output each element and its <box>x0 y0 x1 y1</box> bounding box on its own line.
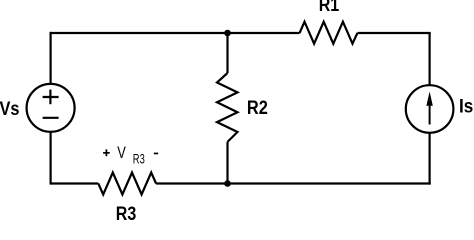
wire bottom-right segment (node B to bottom-right corner) <box>228 182 431 184</box>
current source Is (circle with upward arrow) <box>406 85 454 133</box>
wire right vertical lower (Is bottom to bottom-right corner) <box>429 133 431 185</box>
wire top-right segment (R1 right lead to top-right corner) <box>357 32 430 34</box>
wire right vertical (corner to Is top) <box>429 33 431 85</box>
wire top-left segment (Vs top to node A) <box>50 32 228 34</box>
wire R2 bottom to node B <box>226 142 228 184</box>
wire left vertical upper (top-left corner to Vs top) <box>49 32 51 84</box>
resistor R1 <box>300 22 358 44</box>
svg-text:R3: R3 <box>116 204 137 220</box>
voltage source Vs (circle with plus and minus) <box>27 84 75 132</box>
node A (junction of top wire and R2) <box>224 30 231 37</box>
resistor R3 <box>98 173 156 195</box>
svg-text:V: V <box>117 144 126 162</box>
node B (junction of bottom wire and R2) <box>224 180 231 187</box>
wire node A to R2 top <box>226 33 228 73</box>
wire left vertical lower (Vs bottom to bottom-left corner) <box>49 132 51 185</box>
svg-text:Vs: Vs <box>0 99 20 120</box>
svg-text:R1: R1 <box>319 0 340 16</box>
wire bottom-left segment (corner to R3 left lead) <box>51 182 99 184</box>
svg-text:R2: R2 <box>247 98 268 119</box>
label voltage annotation: plus sign of V_R3 <box>103 149 110 156</box>
label voltage annotation: minus sign of V_R3 <box>154 153 158 155</box>
svg-text:R3: R3 <box>133 151 145 167</box>
resistor R2 <box>217 73 238 142</box>
svg-text:Is: Is <box>459 96 473 117</box>
wire bottom segment (R3 right lead to node B) <box>156 182 227 184</box>
wire top segment (node A to R1 left lead) <box>228 32 300 34</box>
